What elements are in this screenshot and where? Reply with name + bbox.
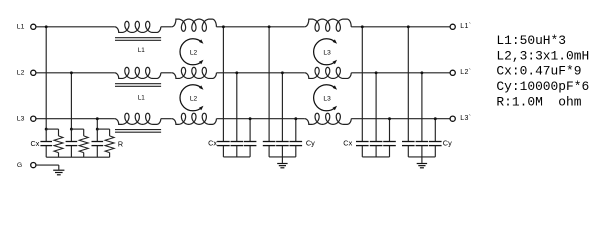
wire right Cx bank cap 2 lower lead xyxy=(375,146,377,157)
wire right Cy bank cap 2 upper lead xyxy=(421,73,423,142)
wire right Cy bank cap 2 lower lead xyxy=(421,146,423,157)
wire right Cx bank cap 2 upper lead xyxy=(375,73,377,142)
capacitor mid Cx bank2 xyxy=(231,141,244,143)
capacitor right Cx bank2 xyxy=(370,141,383,143)
resistor R3 lead xyxy=(109,129,111,136)
wire right Cx bank rail xyxy=(362,156,389,158)
node right Cy bank cap 2 xyxy=(420,71,423,74)
node phase tap 1 xyxy=(45,25,48,28)
wire right Cx bank cap 3 upper lead xyxy=(389,119,391,142)
wire L2 right segment xyxy=(351,72,450,74)
wire L2 middle segment xyxy=(216,72,304,74)
svg-text:Cx:0.47uF*9: Cx:0.47uF*9 xyxy=(496,64,581,79)
svg-text:Cx: Cx xyxy=(343,139,352,148)
capacitor right Cy bank3 xyxy=(429,141,442,143)
wire mid Cy bank cap 1 lower lead xyxy=(268,146,270,157)
wire L1 right segment xyxy=(351,26,450,28)
wire mid Cy bank cap 3 upper lead xyxy=(295,119,297,142)
wire L1 between coils xyxy=(161,26,172,28)
inductor L3 coil row L2 xyxy=(305,67,352,78)
svg-text:L2: L2 xyxy=(190,95,198,102)
node right Cx bank cap 2 xyxy=(375,71,378,74)
capacitor mid Cx bank3 xyxy=(244,141,257,143)
node right Cy bank cap 3 xyxy=(434,117,437,120)
wire L1 middle segment xyxy=(216,26,304,28)
wire L3 middle segment xyxy=(216,118,304,120)
node phase tap 3 xyxy=(96,117,99,120)
capacitor Cx2 xyxy=(66,141,78,143)
svg-text:L2,3:3x1.0mH: L2,3:3x1.0mH xyxy=(496,48,589,63)
wire G xyxy=(36,164,59,166)
svg-text:Cx: Cx xyxy=(31,139,40,148)
resistor R2 lead xyxy=(83,129,85,136)
wire L3 between coils xyxy=(161,118,172,120)
capacitor mid Cy bank2 xyxy=(276,141,289,143)
inductor L1 coil row L3 xyxy=(115,113,161,124)
wire pair rail 1 xyxy=(46,128,58,130)
capacitor mid Cx bank1 xyxy=(217,141,230,143)
wire L1 left segment xyxy=(36,26,115,28)
terminal L3 xyxy=(31,116,36,121)
wire right Cy bank cap 3 lower lead xyxy=(434,146,436,157)
wire L2 between coils xyxy=(161,72,172,74)
terminal L3` xyxy=(450,116,455,121)
terminal G xyxy=(31,163,36,168)
wire mid Cx bank cap 2 lower lead xyxy=(236,146,238,157)
inductor L3 coil row L1 xyxy=(305,19,352,31)
svg-text:L2: L2 xyxy=(17,69,25,76)
winding symbol L3 upper xyxy=(314,39,336,65)
capacitor right Cx bank3 xyxy=(383,141,396,143)
svg-text:L3: L3 xyxy=(17,115,25,122)
wire right Cx bank cap 1 upper lead xyxy=(361,27,363,142)
ground mid Cy bank xyxy=(281,157,283,163)
wire L2 left segment xyxy=(36,72,115,74)
wire right Cx bank cap 3 lower lead xyxy=(389,146,391,157)
wire mid Cy bank cap 2 lower lead xyxy=(281,146,283,157)
wire mid Cx bank cap 1 lower lead xyxy=(222,146,224,157)
node right Cy bank cap 1 xyxy=(407,25,410,28)
wire phase tap 2 xyxy=(70,73,72,129)
node mid Cy bank cap 1 xyxy=(268,25,271,28)
svg-text:Cy:10000pF*6: Cy:10000pF*6 xyxy=(496,79,589,94)
wire right Cy bank cap 3 upper lead xyxy=(434,119,436,142)
svg-text:R:1.0M ohm: R:1.0M ohm xyxy=(496,94,581,109)
svg-text:L2`: L2` xyxy=(460,69,471,76)
capacitor right Cy bank1 xyxy=(402,141,415,143)
node tap 3 xyxy=(96,128,99,131)
wire phase tap 1 xyxy=(45,27,47,129)
inductor L2 coil row L3 xyxy=(172,113,217,124)
capacitor Cx3 xyxy=(92,141,104,143)
capacitor Cx3 lead xyxy=(96,129,98,141)
svg-text:L1: L1 xyxy=(17,23,25,30)
terminal L1` xyxy=(450,24,455,29)
svg-text:L3: L3 xyxy=(323,49,331,56)
node mid Cy bank cap 3 xyxy=(294,117,297,120)
svg-text:R: R xyxy=(118,140,123,149)
svg-text:L3: L3 xyxy=(323,95,331,102)
winding symbol L3 lower xyxy=(314,85,336,111)
svg-text:L1:50uH*3: L1:50uH*3 xyxy=(496,33,566,48)
node mid Cx bank cap 1 xyxy=(222,25,225,28)
wire mid Cy bank rail xyxy=(269,156,296,158)
wire right Cy bank rail xyxy=(408,156,435,158)
inductor L2 coil row L2 xyxy=(172,67,217,78)
node phase tap 2 xyxy=(70,71,73,74)
ground right Cy bank xyxy=(421,157,423,163)
wire right Cx bank cap 1 lower lead xyxy=(361,146,363,157)
svg-text:Cy: Cy xyxy=(306,139,315,148)
capacitor mid Cy bank1 xyxy=(263,141,276,143)
capacitor mid Cy bank3 xyxy=(290,141,303,143)
inductor L1 coil row L1 xyxy=(115,21,161,32)
capacitor Cx1 xyxy=(40,141,52,143)
capacitor Cx2 lead xyxy=(70,129,72,141)
svg-text:L3`: L3` xyxy=(460,115,471,122)
node right Cx bank cap 1 xyxy=(361,25,364,28)
ground G xyxy=(58,165,60,170)
winding symbol L2 lower xyxy=(180,85,202,111)
wire bottom rail xyxy=(46,156,109,158)
resistor R3 xyxy=(105,136,114,153)
svg-text:L1`: L1` xyxy=(460,23,471,30)
capacitor right Cx bank1 xyxy=(356,141,369,143)
svg-text:L1: L1 xyxy=(138,94,146,101)
wire pair rail 2 xyxy=(71,128,83,130)
wire mid Cx bank cap 3 upper lead xyxy=(249,119,251,142)
terminal L2 xyxy=(31,70,36,75)
node mid Cy bank cap 2 xyxy=(281,71,284,74)
wire phase tap 3 xyxy=(96,119,98,129)
wire mid Cx bank cap 3 lower lead xyxy=(249,146,251,157)
wire L3 left segment xyxy=(36,118,115,120)
wire mid Cx bank cap 2 upper lead xyxy=(236,73,238,142)
inductor L1 core row L3 xyxy=(115,129,161,131)
wire mid Cx bank rail xyxy=(223,156,250,158)
wire right Cy bank cap 1 lower lead xyxy=(407,146,409,157)
wire right Cy bank cap 1 upper lead xyxy=(407,27,409,142)
resistor R1 lead xyxy=(58,129,60,136)
wire mid Cy bank cap 3 lower lead xyxy=(295,146,297,157)
wire mid Cy bank cap 2 upper lead xyxy=(281,73,283,142)
svg-text:L2: L2 xyxy=(190,49,198,56)
inductor L2 coil row L1 xyxy=(172,19,217,31)
inductor L1 core row L1 xyxy=(115,37,161,39)
inductor L1 core row L2 xyxy=(115,83,161,85)
node mid Cx bank cap 2 xyxy=(235,71,238,74)
capacitor right Cy bank2 xyxy=(416,141,429,143)
node tap 1 xyxy=(45,128,48,131)
wire mid Cy bank cap 1 upper lead xyxy=(268,27,270,142)
wire mid Cx bank cap 1 upper lead xyxy=(222,27,224,142)
svg-text:G: G xyxy=(17,162,22,169)
node tap 2 xyxy=(70,128,73,131)
wire L3 right segment xyxy=(351,118,450,120)
winding symbol L2 upper xyxy=(180,39,202,65)
node right Cx bank cap 3 xyxy=(388,117,391,120)
terminal L2` xyxy=(450,70,455,75)
resistor R1 xyxy=(54,136,63,153)
svg-text:Cx: Cx xyxy=(208,139,217,148)
svg-text:Cy: Cy xyxy=(443,139,452,148)
inductor L3 coil row L3 xyxy=(305,113,352,124)
wire pair rail 3 xyxy=(97,128,109,130)
resistor R2 xyxy=(79,136,88,153)
node mid Cx bank cap 3 xyxy=(249,117,252,120)
terminal L1 xyxy=(31,24,36,29)
inductor L1 coil row L2 xyxy=(115,67,161,78)
capacitor Cx1 lead xyxy=(45,129,47,141)
svg-text:L1: L1 xyxy=(138,47,146,54)
